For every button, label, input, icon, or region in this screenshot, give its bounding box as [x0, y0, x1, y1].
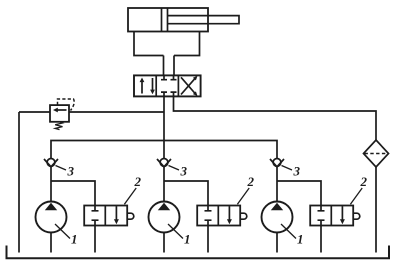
wire branch to valve 2c — [277, 181, 321, 206]
valve 2b flow arrow — [228, 206, 230, 221]
valve 2c body — [310, 206, 353, 226]
svg-text:1: 1 — [297, 232, 304, 247]
svg-text:3: 3 — [293, 164, 301, 179]
wire pump 1c drain — [276, 233, 278, 253]
valve 2a flow arrow — [115, 206, 117, 221]
valve 2c actuator — [353, 213, 360, 219]
wire branch to valve 2b — [164, 181, 208, 206]
wire port A — [163, 56, 165, 76]
valve 2c blocked ports — [318, 206, 325, 226]
valve 2b actuator — [240, 213, 247, 219]
check valve 3b — [160, 159, 168, 167]
relief valve body — [50, 105, 69, 122]
wire P line valve to manifold — [163, 96, 165, 158]
pump 1b — [149, 202, 180, 233]
wire valve 2a drain — [94, 226, 96, 253]
valve U1 4/3 directional body — [134, 75, 201, 96]
wire valve 2c drain — [320, 226, 322, 253]
svg-text:1: 1 — [184, 232, 191, 247]
valve 2a blocked ports — [92, 206, 99, 226]
valve U1 right position crossed arrows — [181, 77, 196, 94]
wire check to pump 3 — [276, 167, 278, 202]
svg-text:3: 3 — [67, 164, 75, 179]
check valve 3c — [273, 159, 281, 167]
svg-text:2: 2 — [247, 174, 255, 189]
valve 2b body — [197, 206, 240, 226]
valve U1 center position blocked ports — [161, 75, 177, 79]
wire relief branch — [19, 111, 164, 113]
cylinder rod — [168, 16, 240, 24]
valve 2c flow arrow — [341, 206, 343, 221]
label 1b leader — [168, 224, 183, 239]
svg-text:2: 2 — [134, 174, 142, 189]
wire port B — [173, 56, 175, 76]
valve U1 left position arrows — [141, 80, 143, 94]
wire T return to filter — [174, 96, 377, 140]
cylinder piston — [161, 8, 163, 32]
valve 2a body — [84, 206, 127, 226]
wire check to pump 1 — [50, 167, 52, 202]
svg-text:2: 2 — [360, 174, 368, 189]
cylinder mount — [134, 32, 200, 56]
label 2a leader — [124, 188, 136, 204]
wire branch to valve 2a — [51, 181, 95, 206]
tank — [7, 246, 390, 259]
wire check to pump 2 — [163, 167, 165, 202]
label 3c leader — [282, 166, 293, 171]
wire tank left drop — [18, 112, 20, 253]
pump 1a — [36, 202, 67, 233]
relief valve pilot dashed — [58, 99, 75, 111]
valve 2b blocked ports — [205, 206, 212, 226]
check valve 3a — [47, 159, 55, 167]
valve 2a actuator — [127, 213, 134, 219]
relief valve spring — [55, 122, 62, 130]
cylinder body — [128, 8, 208, 32]
wire valve 2b drain — [207, 226, 209, 253]
wire pump 1b drain — [163, 233, 165, 253]
svg-text:1: 1 — [71, 232, 78, 247]
label 2c leader — [350, 188, 362, 204]
manifold wire — [51, 141, 277, 159]
wire filter to tank — [375, 167, 377, 253]
pump 1c — [262, 202, 293, 233]
label 3b leader — [169, 166, 180, 171]
label 1a leader — [55, 224, 70, 239]
wire pump 1a drain — [50, 233, 52, 253]
svg-text:3: 3 — [180, 164, 188, 179]
label 2b leader — [237, 188, 249, 204]
label 1c leader — [281, 224, 296, 239]
label 3a leader — [56, 166, 67, 171]
relief valve arrow — [56, 109, 67, 111]
filter F1 — [364, 140, 389, 167]
